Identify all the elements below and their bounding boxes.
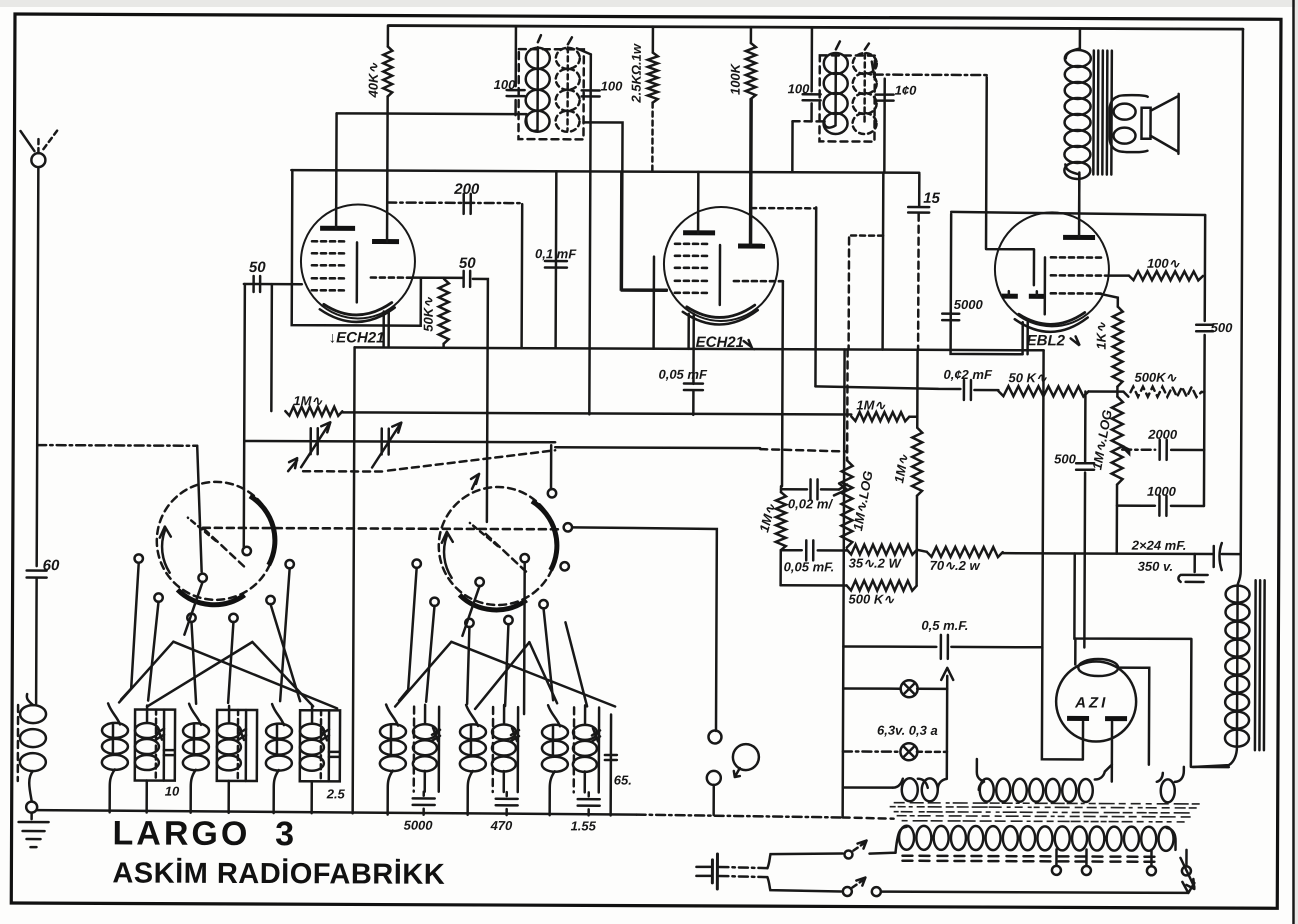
- capacitor 500 (tone): [1083, 391, 1086, 553]
- resistor 1M (detector) vertical at 919: [916, 350, 919, 428]
- wire rail tube1 anode to IF1 primary: [337, 112, 527, 115]
- wire pickup line: [572, 527, 717, 731]
- T1 secondary coil: [556, 48, 580, 69]
- svg-text:100: 100: [601, 78, 624, 93]
- wire T1 secondary to tube2 grid: [583, 122, 668, 290]
- coil set band2: [380, 724, 406, 739]
- svg-text:35∿.2 W: 35∿.2 W: [849, 555, 903, 570]
- svg-text:500K∿: 500K∿: [1134, 370, 1177, 385]
- resistor 50K: [974, 389, 998, 392]
- capacitor 65 padder: [609, 715, 612, 816]
- capacitor 150 (T2 secondary): [883, 79, 886, 173]
- capacitor 0,2 mF coupling: [815, 386, 960, 389]
- resistor 40K (screen feed): [387, 26, 390, 47]
- wire band switch feed y=440: [245, 441, 555, 442]
- wire rail y=346: [355, 347, 1044, 350]
- rectifier tube AZ1: [1056, 659, 1137, 782]
- resistor 1M (grid leak): [285, 407, 342, 416]
- svg-text:ASKİM RADİOFABRİKK: ASKİM RADİOFABRİKK: [112, 857, 445, 890]
- output transformer: [1079, 28, 1082, 48]
- svg-text:0,1 mF: 0,1 mF: [535, 246, 577, 261]
- wire y=445 to tone pot: [555, 446, 760, 449]
- svg-text:40K∿: 40K∿: [366, 62, 381, 99]
- mains plug: [696, 854, 767, 889]
- capacitor 60 (antenna series): [27, 571, 47, 578]
- coil box band1 L3b + trimmer: [300, 710, 340, 781]
- mains voltage taps: [1052, 849, 1195, 889]
- wire osc padder stud: [550, 445, 553, 489]
- svg-text:1M∿: 1M∿: [293, 393, 323, 408]
- svg-text:0,05 mF.: 0,05 mF.: [784, 559, 835, 574]
- capacitor 50 (osc coupling): [464, 271, 471, 287]
- svg-text:1.55: 1.55: [571, 818, 597, 833]
- dial lamp 1: [843, 687, 900, 690]
- primary tap marks: [902, 856, 1154, 862]
- resistor 1M (AVC) vertical: [780, 486, 783, 492]
- capacitor 0,02 mF: [781, 488, 839, 491]
- svg-text:0,5 m.F.: 0,5 m.F.: [921, 618, 968, 633]
- variable capacitor gang C-tune1: [157, 458, 298, 606]
- svg-text:470: 470: [490, 818, 514, 833]
- wire mains return: [881, 892, 1188, 893]
- coil set band2: [460, 724, 486, 739]
- wire switch web bank1: [119, 563, 338, 708]
- resistor 35 ohm 2W: [847, 544, 917, 554]
- svg-text:2.5KΩ.1w: 2.5KΩ.1w: [629, 43, 644, 104]
- svg-text:0,05 mF: 0,05 mF: [658, 367, 708, 382]
- switch mains b: [767, 877, 841, 891]
- terminal pickup 1: [708, 730, 721, 743]
- secondary HT winding: [977, 759, 1112, 802]
- coil set band1 L3: [266, 724, 292, 739]
- resistor 1M (detector load): [851, 412, 909, 421]
- svg-text:100: 100: [494, 77, 517, 92]
- svg-text:1¢0: 1¢0: [895, 83, 918, 98]
- resistor 500K (grid EBL21): [1123, 387, 1201, 397]
- IF transformer T2: [811, 27, 874, 141]
- svg-text:65.: 65.: [614, 773, 632, 788]
- svg-text:100∿: 100∿: [1147, 256, 1181, 271]
- ground terminal: [26, 802, 37, 813]
- svg-text:500: 500: [1211, 320, 1234, 335]
- potentiometer knob: [733, 744, 759, 770]
- resistor 2.5K 1w: [652, 27, 655, 53]
- capacitor 200 (grid feedback): [387, 201, 522, 204]
- svg-text:ECH21: ECH21: [696, 334, 744, 351]
- svg-text:AZI: AZI: [1074, 694, 1108, 711]
- svg-text:0,02 m/: 0,02 m/: [788, 496, 834, 511]
- vacuum tube V3 EBL21: [951, 172, 1110, 355]
- svg-text:5000: 5000: [404, 818, 434, 833]
- coil box band1 L2b + trimmer: [217, 710, 257, 781]
- resistor 100K (osc anode): [750, 27, 753, 43]
- power transformer primary (bottom row): [895, 826, 1175, 854]
- capacitor 500 (top): [1196, 325, 1213, 332]
- coil set band1 L2: [183, 723, 209, 738]
- antenna: [19, 130, 58, 566]
- trimmer capacitor T1: [311, 428, 318, 454]
- svg-text:1M∿: 1M∿: [856, 398, 886, 413]
- svg-text:15: 15: [923, 190, 940, 207]
- wire tube2 grid lead down: [781, 281, 784, 486]
- wire ground bus bottom: [37, 810, 637, 815]
- svg-text:2.5: 2.5: [326, 786, 346, 801]
- capacitor 5000: [942, 314, 959, 321]
- page edge line right: [1292, 0, 1295, 924]
- svg-text:500: 500: [1054, 451, 1077, 466]
- secondary heater winding 6.3v: [893, 752, 947, 802]
- wire B+ top rail: [389, 26, 1243, 30]
- wire ganged tuning dashed link: [203, 528, 562, 530]
- IF transformer T1: [515, 26, 583, 139]
- wire switch web bank2: [395, 568, 616, 710]
- capacitor 15 (osc padding): [918, 174, 921, 206]
- wire IF2 cap line down to rail: [881, 173, 884, 350]
- svg-text:2000: 2000: [1147, 427, 1178, 442]
- resistor 1K: [1099, 294, 1118, 307]
- wire AZ1 plate feed: [1074, 553, 1230, 767]
- terminal pickup 2: [707, 771, 721, 785]
- vacuum tube V1 ECH21: [292, 96, 464, 347]
- wire heater winding link: [843, 786, 893, 789]
- svg-text:10: 10: [165, 784, 180, 799]
- capacitor 0,1 mF: [554, 171, 557, 348]
- transformer core hatching: [890, 803, 1200, 822]
- svg-text:↓ECH21: ↓ECH21: [329, 329, 385, 346]
- coil set band2: [542, 725, 568, 740]
- wire rail y=169: [291, 170, 919, 173]
- capacitor 2000: [1121, 446, 1129, 454]
- svg-text:100: 100: [788, 81, 811, 96]
- svg-text:50: 50: [249, 259, 266, 276]
- svg-text:100K: 100K: [728, 62, 743, 95]
- resistor 50K (osc grid): [421, 276, 444, 279]
- wire rail y=411: [342, 412, 851, 414]
- wire dashed antenna line y=445: [37, 444, 197, 447]
- svg-text:1000: 1000: [1147, 484, 1177, 499]
- T1 primary coil: [526, 48, 550, 69]
- svg-text:350 v.: 350 v.: [1138, 559, 1174, 574]
- contact studs gang2: [412, 559, 420, 567]
- T2 primary coil: [824, 53, 848, 74]
- capacitor 100 (T2 primary): [803, 94, 821, 100]
- coil box band1 L1b + trimmer: [135, 710, 175, 781]
- svg-text:70∿.2 w: 70∿.2 w: [930, 558, 981, 573]
- wire osc section to y204: [751, 207, 816, 210]
- heater arrow: [946, 676, 949, 752]
- wire AZ1 top cap to HT: [1074, 638, 1077, 664]
- svg-text:0,¢2 mF: 0,¢2 mF: [943, 367, 993, 382]
- potentiometer 1M LOG tone: [1116, 392, 1119, 397]
- wire B+ vertical x=1045: [1042, 350, 1085, 759]
- dial lamp 2: [843, 750, 900, 753]
- wire osc coupling dashed stub: [851, 234, 883, 237]
- wire T2 secondary to tube3 grid: [874, 73, 987, 76]
- svg-text:EBL2: EBL2: [1027, 332, 1066, 349]
- svg-text:5000: 5000: [954, 297, 984, 312]
- svg-text:1K∿: 1K∿: [1094, 321, 1109, 350]
- trimmer capacitor T2: [382, 429, 389, 455]
- svg-text:50: 50: [459, 255, 476, 272]
- svg-text:500 K∿: 500 K∿: [849, 591, 896, 606]
- resistor 100 ohm: [1105, 274, 1129, 277]
- capacitor 100 (T1 secondary): [589, 54, 591, 414]
- capacitor 1000: [1117, 504, 1204, 507]
- wire right vertical 1206: [1204, 215, 1205, 506]
- coil set band1 L1: [102, 723, 128, 738]
- resistor 500K (AF): [779, 550, 782, 585]
- svg-text:6,3v. 0,3 a: 6,3v. 0,3 a: [877, 723, 938, 738]
- ground symbol: [19, 821, 49, 824]
- potentiometer 1M LOG volume: [846, 349, 849, 460]
- capacitor 50 (aerial grid): [244, 283, 302, 286]
- secondary rectifier filament winding: [1157, 767, 1184, 803]
- switch mains a: [767, 853, 842, 868]
- contact studs gang1: [134, 554, 142, 562]
- capacitor 0,05 mF (cathode): [684, 384, 703, 391]
- wire gang2 frame down: [523, 562, 526, 714]
- wire T2 primary bottom return: [793, 120, 828, 123]
- antenna coil: [20, 705, 46, 723]
- svg-text:LARGO 3: LARGO 3: [112, 814, 297, 853]
- svg-text:60: 60: [43, 557, 60, 574]
- vacuum tube V2 ECH21: [620, 99, 783, 385]
- wire B+ from 549 to 0,5mF line: [1083, 553, 1086, 647]
- capacitor 100 (T1 primary): [507, 90, 525, 96]
- wire long vertical x=356: [353, 347, 355, 813]
- speaker: [1109, 94, 1178, 154]
- filter choke / field coil right: [1238, 29, 1243, 585]
- T2 secondary coil: [853, 53, 877, 74]
- svg-text:2×24 mF.: 2×24 mF.: [1131, 538, 1187, 553]
- svg-text:200: 200: [453, 181, 480, 198]
- capacitor 0,5 mF: [843, 349, 845, 816]
- variable capacitor gang C-tune2: [439, 474, 558, 610]
- svg-text:50K∿: 50K∿: [421, 296, 436, 332]
- capacitor 0,05 mF (35ohm line): [781, 549, 847, 552]
- svg-text:50 K∿: 50 K∿: [1008, 370, 1048, 385]
- resistor 70 ohm 2w: [927, 547, 1003, 557]
- wire rail tube3 top: [951, 212, 1205, 215]
